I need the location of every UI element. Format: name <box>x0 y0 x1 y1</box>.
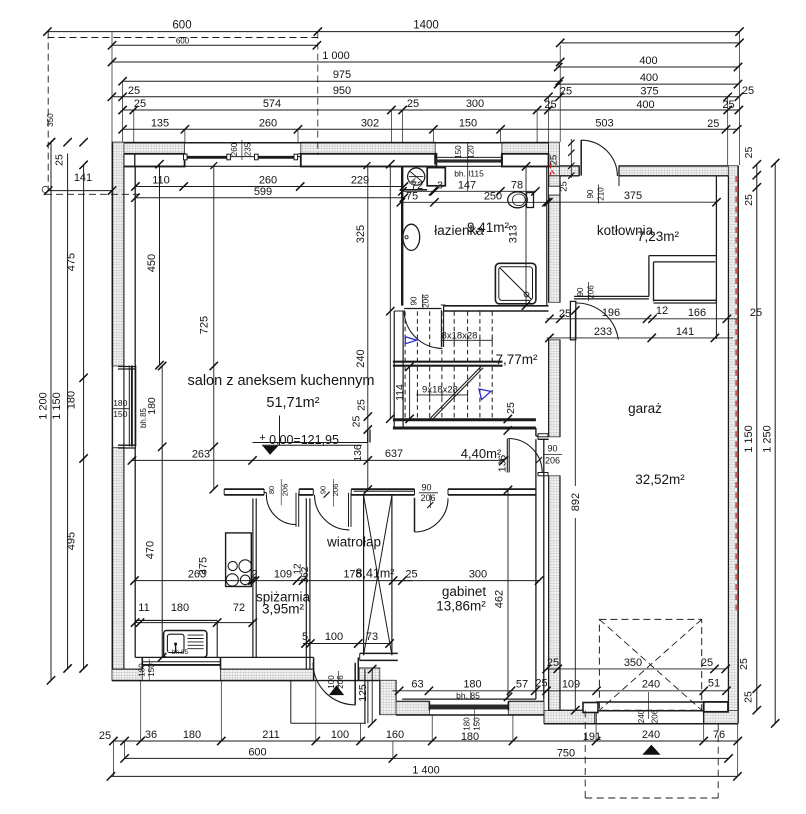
door kotlownia lower labels 90 206 <box>576 282 596 301</box>
dim row 599 <box>131 186 408 202</box>
dim col 325 240 25 at salon east <box>355 160 395 423</box>
dim col 450 725 inside salon <box>146 160 218 493</box>
svg-text:1 250: 1 250 <box>762 425 774 453</box>
door D3 hall to garage 90 <box>507 434 548 476</box>
wardrobe closet with X in wiatrolap <box>354 491 414 655</box>
svg-text:72: 72 <box>233 602 245 614</box>
door D7 main entrance 100 <box>313 663 355 705</box>
wall north step piece at x550 <box>549 142 560 175</box>
svg-text:150: 150 <box>113 409 127 419</box>
step down wall column west of gabinet <box>380 680 396 714</box>
bathroom label <box>434 220 509 238</box>
wall south garage hatched with door opening <box>544 702 738 724</box>
svg-text:141: 141 <box>676 326 694 338</box>
svg-text:260: 260 <box>259 175 277 187</box>
svg-text:362: 362 <box>300 566 311 583</box>
svg-text:260: 260 <box>259 117 277 129</box>
svg-text:3,95m²: 3,95m² <box>262 602 305 617</box>
dashed line under row1 <box>47 37 317 39</box>
svg-text:325: 325 <box>355 225 367 243</box>
svg-text:7,77m²: 7,77m² <box>495 352 538 367</box>
svg-text:salon z aneksem kuchennym: salon z aneksem kuchennym <box>188 373 375 389</box>
stairs label 8x18x28 <box>441 330 492 343</box>
dim 25 garage right row318 end <box>750 307 762 319</box>
svg-text:25: 25 <box>738 658 750 670</box>
svg-text:503: 503 <box>595 117 613 129</box>
blue direction triangle 2 <box>479 389 491 400</box>
svg-text:1 150: 1 150 <box>743 425 755 453</box>
window W2 west salon 180x150 <box>118 366 136 449</box>
dim row 25 196 12 166 <box>545 305 738 323</box>
wiatrolap label <box>326 535 381 550</box>
svg-text:75: 75 <box>406 190 418 202</box>
svg-text:25: 25 <box>743 194 755 206</box>
porch outline at entrance <box>291 669 368 723</box>
dashed property line horizontal <box>45 193 141 195</box>
svg-text:25: 25 <box>356 399 368 411</box>
kitchen lower counter <box>135 620 217 657</box>
svg-text:25: 25 <box>742 85 754 97</box>
svg-text:25: 25 <box>701 657 713 669</box>
wall north inner leaf pier box3 <box>502 154 549 167</box>
wall corridor south segment D <box>448 489 536 495</box>
svg-text:233: 233 <box>594 326 612 338</box>
stairs dim 25 at south wall <box>504 402 517 435</box>
dim right row 400 first <box>554 55 742 71</box>
wall wiatrolap south with entrance opening <box>314 657 380 680</box>
svg-text:bh. l115: bh. l115 <box>454 169 484 179</box>
dashed property line vertical with 350 <box>42 32 55 193</box>
svg-text:1 000: 1 000 <box>322 50 350 62</box>
dim bottom rowC 1400 <box>107 764 742 780</box>
wall west salon hatched <box>112 142 124 680</box>
svg-text:100: 100 <box>327 675 336 689</box>
svg-text:725: 725 <box>199 316 211 334</box>
wall corridor south segment C <box>351 489 414 495</box>
wall north inner leaf pier box2 <box>301 154 437 167</box>
dim row6 25 574 25 300 25 400 25 <box>118 98 743 114</box>
svg-text:109: 109 <box>562 679 580 691</box>
svg-text:9,41m²: 9,41m² <box>467 220 510 235</box>
entrance door labels 100 206 <box>327 671 345 693</box>
dim 141 row <box>44 172 116 195</box>
bh 85 label gabinet <box>456 691 480 701</box>
door D8 kotlownia to garage 90 leaf rect <box>570 301 618 339</box>
kotlownia east inner face <box>715 176 717 256</box>
svg-text:114: 114 <box>394 384 406 401</box>
red dashed fire wall marks at step <box>551 164 555 176</box>
svg-text:211: 211 <box>262 729 280 741</box>
svg-text:166: 166 <box>688 307 706 319</box>
svg-text:25: 25 <box>750 307 762 319</box>
wall west inner room face line <box>134 166 136 657</box>
svg-text:8,41m²: 8,41m² <box>356 566 395 580</box>
svg-text:51: 51 <box>708 678 720 690</box>
svg-text:495: 495 <box>66 532 78 550</box>
dim row 263 637 with 136 labels <box>128 444 509 472</box>
svg-text:36: 36 <box>145 729 157 741</box>
kotlownia label <box>597 223 680 244</box>
svg-text:2: 2 <box>251 568 257 580</box>
svg-text:120: 120 <box>467 145 476 159</box>
salon room label <box>188 373 375 411</box>
stairs label 9x18x28 <box>416 385 467 398</box>
svg-text:51,71m²: 51,71m² <box>266 395 319 411</box>
wall south gabinet hatched <box>396 699 544 715</box>
window west labels 180 150 bh85 and dim 180 <box>112 362 167 451</box>
svg-text:109: 109 <box>274 568 292 580</box>
svg-text:90: 90 <box>421 483 431 493</box>
dim row3 1000 <box>108 50 565 66</box>
svg-text:90: 90 <box>547 444 557 454</box>
dim col 470 <box>145 541 167 662</box>
dim row4 975 <box>118 69 563 85</box>
wall corridor south segment B <box>299 489 313 495</box>
svg-text:90: 90 <box>576 287 585 296</box>
svg-text:100: 100 <box>325 631 343 643</box>
wall stairs south double thick <box>393 420 536 428</box>
dim row 233 141 <box>545 326 733 342</box>
dim col 1150 left <box>51 154 72 673</box>
stairs walk line diagonal double <box>430 367 483 420</box>
bathroom vent chimney circle <box>408 168 425 185</box>
svg-text:25: 25 <box>722 99 734 111</box>
svg-text:196: 196 <box>602 307 620 319</box>
dim row 263 375 2 109 12 362 178 841 <box>130 557 413 585</box>
svg-text:135: 135 <box>151 117 169 129</box>
svg-text:260: 260 <box>230 142 239 156</box>
svg-text:892: 892 <box>570 493 582 511</box>
svg-text:80: 80 <box>267 486 276 494</box>
dim 25 at kotlownia door <box>559 308 571 320</box>
dim row7 135 260 302 150 503 25 <box>118 117 741 133</box>
kotlownia garage notch <box>574 256 716 339</box>
dim right row 400 second <box>554 72 742 88</box>
garage door size labels 240 206 <box>637 692 660 723</box>
svg-text:235: 235 <box>244 142 253 156</box>
svg-text:206: 206 <box>420 493 435 503</box>
wall north kotlownia hatched <box>559 166 728 186</box>
wall north salon hatched leaf <box>112 142 559 154</box>
svg-text:32,52m²: 32,52m² <box>635 472 685 487</box>
wall stairs west double <box>394 311 403 429</box>
dim col 313 <box>508 162 531 310</box>
wall spizarnia west double <box>253 498 256 657</box>
svg-text:25: 25 <box>535 678 547 690</box>
svg-text:600: 600 <box>176 36 190 45</box>
svg-text:25: 25 <box>505 402 517 414</box>
wall garage west hatched (between stairs/gabinet and garage) <box>549 176 561 711</box>
svg-text:375: 375 <box>198 557 210 575</box>
kotlownia inner north face line <box>559 175 579 177</box>
door D4 spizarnia 80 <box>266 493 298 527</box>
svg-text:400: 400 <box>640 72 658 84</box>
svg-text:63: 63 <box>411 679 423 691</box>
svg-text:25: 25 <box>405 568 417 580</box>
svg-text:7,23m²: 7,23m² <box>637 229 680 244</box>
wall north inner face line <box>112 165 559 167</box>
svg-text:150: 150 <box>459 117 477 129</box>
svg-text:206: 206 <box>336 675 345 689</box>
svg-text:wiatrołap: wiatrołap <box>326 535 381 550</box>
svg-text:141: 141 <box>74 172 92 184</box>
svg-text:150: 150 <box>454 145 463 159</box>
svg-text:13,86m²: 13,86m² <box>436 599 486 614</box>
svg-text:25: 25 <box>560 86 572 98</box>
window W1 salon north 260x235 <box>184 140 371 169</box>
hall jog piece to garage wall <box>536 428 549 439</box>
dim col 462 <box>494 486 513 701</box>
svg-text:180: 180 <box>183 729 201 741</box>
dim bottom rowB 600 750 <box>120 746 732 762</box>
svg-text:180: 180 <box>66 391 78 409</box>
dim col 892 <box>567 306 582 714</box>
wall south kitchen hatched <box>112 657 314 680</box>
garage door left jamb box <box>583 703 598 713</box>
bottom extension lines <box>113 681 737 777</box>
door bath labels 90 206 <box>410 294 431 308</box>
svg-text:350: 350 <box>624 657 642 669</box>
svg-text:180: 180 <box>463 679 481 691</box>
svg-text:25: 25 <box>407 98 419 110</box>
dim row 11 180 72 <box>131 602 257 627</box>
svg-text:470: 470 <box>145 541 157 559</box>
entrance arrow black triangle <box>329 685 344 695</box>
svg-text:302: 302 <box>361 117 379 129</box>
svg-text:25: 25 <box>544 99 556 111</box>
spizarnia label <box>256 590 311 617</box>
dim row 72 3 147 78 <box>398 179 539 195</box>
svg-text:gabinet: gabinet <box>442 584 487 599</box>
svg-text:8x18x28: 8x18x28 <box>442 330 478 341</box>
svg-text:300: 300 <box>466 98 484 110</box>
stairs lower flight treads dashed <box>405 367 492 419</box>
svg-text:637: 637 <box>385 448 403 460</box>
svg-text:263: 263 <box>192 448 210 460</box>
svg-text:136: 136 <box>352 444 364 462</box>
svg-text:206: 206 <box>422 294 431 308</box>
svg-text:25: 25 <box>54 154 66 166</box>
level marker 0,00=121,95 <box>259 416 362 455</box>
garage area label <box>635 472 685 487</box>
stairs dim 114 <box>394 362 414 423</box>
svg-text:25: 25 <box>99 730 111 742</box>
dim col 1200 <box>38 138 56 685</box>
garage label <box>628 401 662 416</box>
dim row1 600 and 1400 <box>43 20 744 36</box>
svg-text:250: 250 <box>484 190 502 202</box>
svg-text:110: 110 <box>152 175 170 187</box>
svg-text:25: 25 <box>351 416 363 428</box>
dim col right 25 25 ticks <box>738 147 761 715</box>
window W5 gabinet south 180 <box>429 701 508 730</box>
svg-text:180: 180 <box>138 663 147 677</box>
wall bathroom west (salon divider) <box>401 166 403 305</box>
svg-text:1 150: 1 150 <box>51 392 63 420</box>
svg-text:300: 300 <box>469 568 487 580</box>
dim row 375 kotlownia <box>544 190 721 206</box>
svg-text:25: 25 <box>547 657 559 669</box>
svg-text:1 200: 1 200 <box>38 392 50 420</box>
window W4 kitchen south 180x150 <box>138 657 221 680</box>
svg-text:bh. 85: bh. 85 <box>456 691 480 701</box>
svg-text:76: 76 <box>713 729 725 741</box>
svg-text:350: 350 <box>46 113 55 127</box>
dim row2 600small left and right segment <box>108 36 744 49</box>
dim row 5 100 73 <box>301 631 394 648</box>
blue direction triangle 1 <box>405 337 417 344</box>
svg-text:25: 25 <box>743 147 755 159</box>
dim row5 25 950 375 25 <box>108 85 755 101</box>
svg-text:90: 90 <box>410 296 419 305</box>
svg-text:25: 25 <box>134 98 146 110</box>
svg-text:90: 90 <box>319 486 328 494</box>
svg-text:375: 375 <box>640 86 658 98</box>
svg-text:150: 150 <box>473 717 482 731</box>
wall east garage hatched with red dashed fire line <box>728 166 738 724</box>
wiatrolap door labels 90 206 <box>319 479 341 507</box>
svg-text:25: 25 <box>128 85 140 97</box>
dim col 1250 <box>762 159 780 728</box>
garage door swing dashed X box <box>599 619 701 710</box>
kitchen stove with 4 burners <box>226 533 252 587</box>
window W3 bathroom north 150x120 <box>435 143 502 191</box>
wall under closet <box>360 653 398 660</box>
svg-text:5: 5 <box>302 631 308 643</box>
entrance arrow triangle below garage door <box>642 745 660 755</box>
niche in wall at kotlownia <box>548 186 559 195</box>
svg-text:600: 600 <box>172 20 191 32</box>
svg-text:240: 240 <box>642 679 660 691</box>
stairs landing separation double line <box>393 362 503 366</box>
dim col 25 136 at x367 <box>351 166 373 494</box>
dim row 75 250 <box>397 190 551 206</box>
svg-text:garaż: garaż <box>628 401 662 416</box>
dim 25 top left rotated <box>47 138 88 166</box>
svg-text:78: 78 <box>511 179 523 191</box>
kitchen sink with drainboard <box>164 631 207 658</box>
svg-text:574: 574 <box>263 98 281 110</box>
svg-text:240: 240 <box>355 349 367 367</box>
door D5 wiatrolap from corridor 90 <box>315 493 352 530</box>
svg-text:180: 180 <box>463 717 472 731</box>
svg-text:25: 25 <box>743 691 755 703</box>
tick column at step x571 <box>549 139 575 192</box>
svg-text:229: 229 <box>351 175 369 187</box>
svg-text:100: 100 <box>331 729 349 741</box>
svg-text:180: 180 <box>461 731 479 743</box>
svg-text:125: 125 <box>357 684 369 702</box>
svg-text:136: 136 <box>497 455 509 473</box>
svg-text:206: 206 <box>651 709 660 723</box>
svg-text:57: 57 <box>516 679 528 691</box>
svg-text:375: 375 <box>624 190 642 202</box>
svg-text:206: 206 <box>331 484 340 497</box>
bathroom washbasin oval <box>403 224 420 250</box>
dim col 475 180 495 <box>66 161 88 673</box>
svg-text:90: 90 <box>586 189 595 198</box>
svg-text:25: 25 <box>707 118 719 130</box>
svg-text:150: 150 <box>147 663 156 677</box>
svg-text:1 400: 1 400 <box>412 764 440 776</box>
gabinet door labels 90 206 <box>419 483 438 509</box>
dim bottom rowA <box>99 729 742 745</box>
door D6 gabinet 90 <box>415 498 449 532</box>
extension lines top <box>112 32 740 165</box>
svg-text:3: 3 <box>437 179 443 191</box>
driveway dashed lines <box>585 711 718 799</box>
wall north inner leaf pier box1 with divider <box>123 154 185 167</box>
stairs area label 7,77m2 <box>495 352 538 367</box>
svg-text:12: 12 <box>656 305 668 317</box>
svg-text:+: + <box>259 432 265 444</box>
svg-text:25: 25 <box>559 181 570 192</box>
door D2 bathroom 90 swing into stairs <box>404 309 444 349</box>
door D1 entrance kotlownia north 90 <box>581 140 617 176</box>
wall spizarnia east / wiatrolap west double <box>306 498 310 669</box>
garage hall door labels 90 206 <box>536 444 562 466</box>
svg-text:240: 240 <box>637 709 646 723</box>
svg-text:206: 206 <box>280 484 289 497</box>
wall gabinet east / garage west lower double <box>536 439 544 710</box>
bathroom toilet <box>508 192 534 208</box>
dim bh l115 label <box>454 169 484 179</box>
door kotlownia north labels 90 210 <box>586 185 606 204</box>
svg-text:599: 599 <box>254 186 272 198</box>
garage door side pier box <box>704 702 728 712</box>
svg-text:bh.85: bh.85 <box>172 649 189 656</box>
svg-text:206: 206 <box>545 456 560 466</box>
svg-text:240: 240 <box>642 729 660 741</box>
svg-text:313: 313 <box>508 225 520 243</box>
wall bathroom east inner face <box>546 166 548 305</box>
svg-text:180: 180 <box>171 602 189 614</box>
spizarnia door labels 80 206 <box>267 479 289 505</box>
dim 125 porch <box>357 665 376 728</box>
dim row 110 260 229 y186 <box>131 175 408 191</box>
svg-text:9x18x28: 9x18x28 <box>422 385 458 396</box>
bathroom vent duct box <box>403 168 446 190</box>
svg-text:25: 25 <box>549 155 560 166</box>
bathroom shower tray <box>495 263 536 304</box>
svg-text:400: 400 <box>636 99 654 111</box>
svg-text:160: 160 <box>386 729 404 741</box>
svg-text:400: 400 <box>639 55 657 67</box>
wall corridor south segment A <box>224 489 266 495</box>
svg-text:462: 462 <box>494 590 506 608</box>
svg-text:1400: 1400 <box>413 20 439 32</box>
svg-text:475: 475 <box>66 253 78 271</box>
svg-text:950: 950 <box>333 85 351 97</box>
svg-text:975: 975 <box>333 69 351 81</box>
wall bathroom south with door opening <box>441 305 549 311</box>
garage door lines <box>596 702 704 711</box>
svg-text:180: 180 <box>146 397 158 415</box>
svg-text:11: 11 <box>138 602 149 614</box>
kitchen counter line along west wall <box>161 447 163 658</box>
svg-text:600: 600 <box>248 746 266 758</box>
svg-text:450: 450 <box>146 254 158 272</box>
dim row 63 180 57 25 109 240 51 <box>392 678 730 696</box>
svg-text:147: 147 <box>458 179 476 191</box>
dim row 25 300 gabinet <box>392 568 543 585</box>
svg-text:73: 73 <box>366 631 378 643</box>
gabinet labels <box>436 584 486 614</box>
stairs upper flight dashed treads <box>405 311 492 361</box>
salon corridor boundary line and stub <box>253 430 371 443</box>
svg-text:750: 750 <box>557 748 575 760</box>
dim row 25 350 25 <box>542 657 730 673</box>
